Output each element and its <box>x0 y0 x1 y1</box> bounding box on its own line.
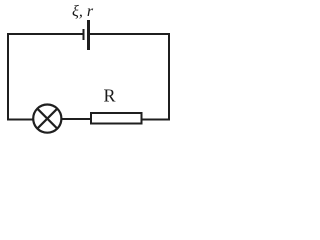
svg-text:R: R <box>104 86 116 106</box>
svg-text:ξ, r: ξ, r <box>72 3 94 20</box>
